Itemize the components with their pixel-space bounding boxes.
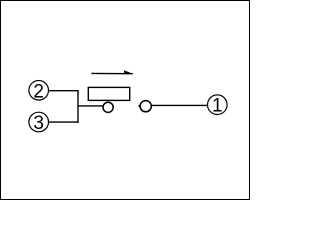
wire bus-to-movable-contact xyxy=(78,105,104,107)
operating direction arrow xyxy=(91,70,133,74)
wire pin2-to-bus xyxy=(49,90,79,92)
svg-text:1: 1 xyxy=(212,96,223,117)
actuator slider rectangle xyxy=(88,87,129,100)
svg-text:3: 3 xyxy=(33,113,44,134)
terminal pin 2 (circled number 2) xyxy=(29,81,49,103)
svg-text:2: 2 xyxy=(33,81,44,102)
terminal pin 3 (circled number 3) xyxy=(29,112,49,134)
wire contact-to-pin1 xyxy=(152,104,208,106)
wire vertical bus joining pins 2 and 3 xyxy=(77,90,79,123)
fixed contact circle (normally-open contact of pin 1) xyxy=(140,101,151,112)
terminal pin 1 (circled number 1) xyxy=(208,95,228,117)
wire pin3-to-bus xyxy=(49,121,79,123)
movable contact (common contact circle) xyxy=(103,102,113,112)
fixed contact stub (left nub of contact 1) xyxy=(138,105,140,107)
